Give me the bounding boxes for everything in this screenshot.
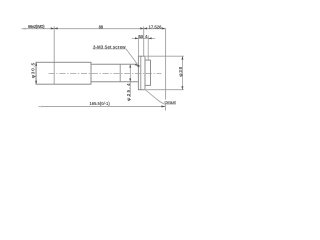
set screw leader diagonal (126, 49, 138, 65)
medium barrel top edge (91, 63, 135, 65)
arrow pair at 143.7 (140, 27, 143, 29)
wire top dimension line (22, 28, 166, 30)
dimension line mid phi (129, 64, 131, 97)
wire right extension corner at 165.6 (165, 29, 167, 100)
arrows mid phi dim (129, 64, 131, 67)
arrow pair at 54.2 (51, 27, 54, 29)
arrow left end top line (22, 28, 26, 30)
phi38 top extension (146, 55, 184, 57)
arrows phi38 dim (181, 56, 183, 59)
set screw leader underline (93, 48, 127, 50)
svg-text:5.5: 5.5 (139, 34, 144, 39)
medium barrel bottom edge (91, 81, 138, 83)
bottom overall dimension line (39, 106, 166, 108)
centerline (49, 72, 162, 74)
arrows phi30 dim (35, 62, 37, 65)
C-mount leader diagonal (146, 90, 164, 104)
svg-text:88: 88 (99, 24, 104, 29)
node extension 148.2 to thread top (147, 35, 149, 60)
C-mount underline (164, 103, 176, 105)
node tick at 143.7 (88/17.526 boundary extension to flange) (143, 26, 145, 56)
svg-text:66±2(WD): 66±2(WD) (28, 24, 45, 29)
arrow set screw leader diamond (135, 64, 139, 67)
arrow bottom dim left (39, 106, 43, 108)
svg-text:φ38: φ38 (178, 66, 184, 76)
phi38 bottom extension (146, 89, 184, 91)
phi38 dimension line (182, 56, 184, 89)
flange rim line (140, 56, 142, 89)
wire 5.5/4 dimension line (132, 38, 156, 40)
svg-text:φ25.4: φ25.4 (126, 83, 132, 101)
arrow 5.5 left (135, 37, 138, 39)
barrel body 1 (phi30) (36, 62, 91, 84)
arrow bottom dim right (161, 105, 165, 107)
svg-text:C-mount: C-mount (164, 100, 176, 105)
arrow right corner 165.6 (162, 27, 166, 29)
node tick at 54.2 (66/88 boundary extension down to barrel joint) (53, 26, 55, 84)
svg-text:165.5(0/-1): 165.5(0/-1) (90, 101, 111, 106)
node extension 138.4 above flange (137, 35, 139, 56)
flange rectangle (138, 56, 145, 89)
svg-text:17.526: 17.526 (149, 25, 163, 30)
phi30 dimension line on barrel left face (35, 62, 37, 84)
svg-text:3-M3 Set screw: 3-M3 Set screw (93, 44, 126, 49)
svg-text:φ30.5: φ30.5 (31, 62, 37, 78)
thread section (145, 60, 151, 85)
medium barrel feature line (119, 64, 121, 82)
arrow 4 right (148, 37, 151, 39)
